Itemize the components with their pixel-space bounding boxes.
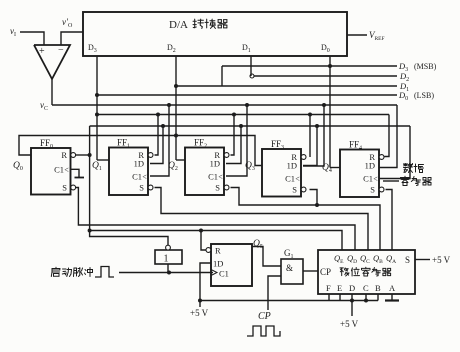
FF0 R output wire bbox=[76, 154, 90, 156]
wire pin D0 to FF4 Q bbox=[330, 167, 340, 169]
pin D stub bbox=[351, 294, 353, 301]
wire D3 bus line bbox=[222, 65, 397, 67]
label data register bbox=[404, 164, 424, 173]
pin B stub bbox=[377, 294, 379, 301]
node start wire to inverter bbox=[167, 271, 171, 275]
node D2 pin open junction bbox=[250, 74, 254, 78]
svg-text:R: R bbox=[61, 150, 67, 160]
wire R bus corner to FF4 R bbox=[385, 115, 390, 157]
wire DAC pin D0 vertical bbox=[329, 56, 331, 168]
wire down to FF5 R bbox=[201, 231, 206, 251]
start pulse waveform symbol bbox=[95, 267, 114, 278]
pin A ground bbox=[391, 294, 393, 300]
svg-text:C1: C1 bbox=[363, 173, 373, 183]
svg-text:R: R bbox=[215, 246, 221, 256]
wire DAC pin D2 vertical bbox=[175, 56, 177, 160]
node R bus to FF1 R bbox=[156, 113, 160, 117]
wire +5V tie line bottom bbox=[200, 300, 378, 302]
svg-text:S: S bbox=[405, 255, 410, 265]
pin F stub bbox=[328, 294, 330, 301]
node start FF reset junction bbox=[199, 229, 203, 233]
op-amp comparator A1 bbox=[34, 45, 70, 79]
svg-text:(MSB): (MSB) bbox=[414, 62, 437, 71]
svg-text:S: S bbox=[215, 183, 220, 193]
svg-text:<: < bbox=[64, 166, 69, 175]
node 1D bus to FF2 1D bbox=[239, 124, 243, 128]
node R bus to FF3 R bbox=[308, 113, 312, 117]
G1 output wire to shift register CP bbox=[303, 270, 318, 272]
flip-flop FF4 box bbox=[340, 150, 379, 198]
svg-text:B: B bbox=[375, 283, 381, 293]
svg-text:S: S bbox=[292, 185, 297, 195]
svg-text:−: − bbox=[58, 45, 64, 56]
svg-text:1D: 1D bbox=[365, 161, 375, 171]
node D3 pin connection bbox=[328, 64, 332, 68]
svg-text:1D: 1D bbox=[287, 161, 297, 171]
flip-flop FF3 box bbox=[262, 149, 301, 197]
wire Q0 feedback line y=135.5 bbox=[19, 136, 262, 166]
svg-text:1D: 1D bbox=[213, 259, 223, 269]
shift register box bbox=[318, 250, 415, 294]
node R bus to FF2 R bbox=[232, 113, 236, 117]
svg-text:<: < bbox=[373, 174, 378, 183]
svg-text:1D: 1D bbox=[210, 159, 220, 169]
svg-text:C1: C1 bbox=[54, 165, 64, 175]
node pin D2 at Q0 line bbox=[174, 134, 178, 138]
node 1D +5V junction bbox=[198, 299, 202, 303]
FF5 Q output wire to G1 bbox=[252, 247, 281, 267]
node FF0 R junction bbox=[88, 153, 92, 157]
wire D1 bus line bbox=[176, 85, 397, 87]
svg-text:C1: C1 bbox=[219, 269, 229, 279]
FF0 S wire to QD tap line C bbox=[76, 188, 355, 251]
FF4 S wire to QA tap bbox=[386, 190, 393, 251]
flip-flop FF0 box bbox=[31, 148, 71, 195]
svg-text:<: < bbox=[142, 172, 147, 181]
flip-flop FF2 box bbox=[185, 148, 224, 196]
pin E stub bbox=[339, 294, 341, 301]
node R bus at D3 pin bbox=[95, 113, 99, 117]
wire 1D bus left corner down to FF0 R node bbox=[89, 126, 91, 155]
wire DAC pin D1 vertical bbox=[250, 56, 252, 76]
wire pin D2 to FF2 Q bbox=[176, 159, 185, 161]
svg-text:D/A: D/A bbox=[169, 19, 188, 31]
wire DAC pin D3 vertical bbox=[96, 56, 98, 160]
node 1D bus to FF3 1D bbox=[315, 124, 319, 128]
svg-text:1: 1 bbox=[164, 254, 169, 265]
wire 1D bus right corner to FF4 C1 bbox=[379, 126, 410, 179]
svg-text:A: A bbox=[389, 283, 396, 293]
wire R bus line y=114.5 bbox=[97, 114, 389, 116]
svg-text:C: C bbox=[363, 283, 369, 293]
wire 1D bus line y=126 bbox=[90, 125, 410, 127]
CP clock waveform bbox=[247, 326, 280, 336]
svg-text:<: < bbox=[218, 172, 223, 181]
wire vC vertical from op-amp output bbox=[51, 79, 53, 105]
vI input wire bbox=[20, 32, 44, 45]
node vC to FF1 C1 bbox=[167, 103, 171, 107]
start pulse input wire bbox=[119, 272, 213, 274]
G1 second input wire from CP bbox=[268, 276, 281, 310]
svg-text:CP: CP bbox=[258, 311, 271, 322]
svg-text:F: F bbox=[326, 283, 331, 293]
wire FF0 R net down to start gate bbox=[90, 155, 168, 245]
FF2 S wire to QB tap line A bbox=[231, 188, 381, 251]
svg-text:+5 V: +5 V bbox=[432, 255, 451, 265]
inverter output bubble bbox=[166, 245, 171, 250]
inverter G2 box bbox=[155, 250, 182, 264]
node D0 pin connection bbox=[95, 93, 99, 97]
svg-text:+5 V: +5 V bbox=[190, 308, 209, 318]
svg-text:C1: C1 bbox=[285, 173, 295, 183]
wire vC horizontal bus y=105 bbox=[52, 104, 397, 106]
D/A converter U1 box bbox=[83, 12, 347, 56]
VREF output wire bbox=[347, 34, 367, 36]
label start pulse bbox=[51, 267, 92, 276]
svg-text:CP: CP bbox=[320, 267, 331, 277]
FF1 S wire to QC tap line B bbox=[155, 188, 369, 251]
svg-text:C1: C1 bbox=[132, 171, 142, 181]
node vC to FF2 C1 bbox=[245, 103, 249, 107]
svg-text:S: S bbox=[62, 183, 67, 193]
data register pointer line bbox=[383, 180, 399, 182]
node D1 pin connection bbox=[174, 84, 178, 88]
pin C stub bbox=[365, 294, 367, 301]
wire D2 bus line bbox=[252, 75, 397, 77]
AND gate G1 box bbox=[281, 259, 303, 284]
svg-text:S: S bbox=[370, 185, 375, 195]
inverter bottom wire bbox=[167, 264, 169, 273]
FF0 R-net wire to QE tap line D bbox=[90, 231, 342, 251]
svg-text:(LSB): (LSB) bbox=[414, 91, 434, 100]
FF0 C1 ground symbol bbox=[71, 169, 79, 177]
svg-text:&: & bbox=[286, 263, 293, 273]
flip-flop FF5 box bbox=[211, 244, 252, 286]
wire pin D3 to FF1 Q bbox=[97, 159, 109, 161]
svg-text:+5 V: +5 V bbox=[340, 319, 359, 329]
node vC to FF3 C1 bbox=[322, 103, 326, 107]
svg-text:<: < bbox=[295, 174, 300, 183]
svg-text:1D: 1D bbox=[134, 159, 144, 169]
label shift register bbox=[340, 267, 391, 276]
svg-text:C1: C1 bbox=[208, 171, 218, 181]
svg-text:E: E bbox=[337, 283, 342, 293]
FF3 S wire joining line A bbox=[310, 190, 318, 206]
FF5 1D wire from +5V bbox=[200, 263, 211, 307]
svg-text:D: D bbox=[349, 283, 355, 293]
flip-flop FF1 box bbox=[109, 148, 148, 196]
node 1D bus to FF1 1D bbox=[161, 124, 165, 128]
svg-text:+: + bbox=[39, 46, 45, 57]
wire D0 bus line bbox=[97, 94, 397, 96]
+5V stub below bbox=[351, 301, 353, 317]
S wire to +5V bbox=[415, 259, 430, 261]
inverting input wire from DAC bbox=[61, 32, 83, 45]
wire vC corner down to FF4 1D bbox=[379, 105, 397, 168]
svg-text:S: S bbox=[139, 183, 144, 193]
